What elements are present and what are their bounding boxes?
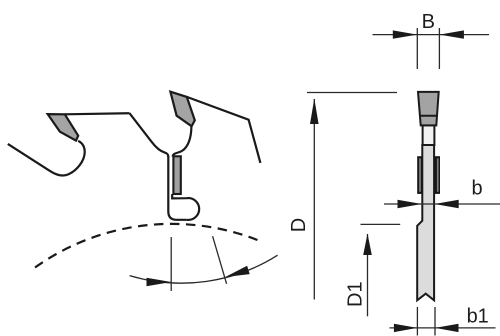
- D arrow: [310, 99, 319, 125]
- carbide tip of middle tooth: [170, 92, 194, 127]
- D1 dimension line: [367, 234, 369, 316]
- carbide tip section: [418, 92, 439, 126]
- D1 arrow: [363, 234, 372, 256]
- D dimension line: [313, 99, 315, 300]
- B extension line left: [416, 28, 418, 69]
- svg-text:b1: b1: [467, 305, 489, 327]
- expansion slot left wall with rounded bottom: [168, 156, 187, 220]
- dashed pitch circle arc: [35, 224, 260, 268]
- middle tooth gullet face above slot: [173, 127, 192, 157]
- b1 arrow left: [394, 324, 418, 332]
- left rake face and gullet of off-screen tooth: [8, 141, 85, 176]
- tooth shank section: [423, 125, 435, 145]
- svg-text:D: D: [288, 218, 310, 232]
- angle reference line vertical: [170, 237, 172, 291]
- B dimension line: [373, 34, 490, 36]
- b1 arrow right: [435, 324, 459, 332]
- expansion slot end hole and shelf: [172, 194, 199, 220]
- svg-text:b: b: [471, 177, 482, 199]
- carbide tip braze line: [420, 115, 437, 117]
- vibration damper plug in slot: [173, 156, 180, 194]
- svg-text:B: B: [422, 11, 435, 33]
- angle reference line slanted: [213, 236, 227, 284]
- b1 extension line left: [416, 307, 418, 336]
- b1 extension line right: [434, 307, 436, 336]
- steep gullet descent before middle tooth: [130, 113, 169, 157]
- angle arrow right: [225, 266, 249, 277]
- b arrow right: [435, 200, 459, 208]
- angle dimension arc: [130, 255, 278, 283]
- b dimension line: [384, 203, 500, 205]
- angle arrow left: [147, 278, 172, 286]
- B arrow right: [439, 30, 464, 38]
- svg-text:D1: D1: [345, 281, 367, 307]
- clamp bar right (slot edge-on): [435, 156, 440, 194]
- carbide tip of left tooth: [48, 114, 78, 141]
- back line of middle tooth: [187, 97, 261, 163]
- b arrow left: [398, 200, 422, 208]
- D1 reference tick: [361, 223, 401, 225]
- B arrow left: [393, 30, 418, 38]
- blade plate section body: [417, 145, 434, 300]
- D reference tick: [307, 92, 397, 94]
- b1 dimension line: [390, 327, 496, 329]
- clamp bar left (slot edge-on): [417, 156, 422, 194]
- B extension line right: [438, 28, 440, 69]
- back line of left tooth: [65, 113, 130, 114]
